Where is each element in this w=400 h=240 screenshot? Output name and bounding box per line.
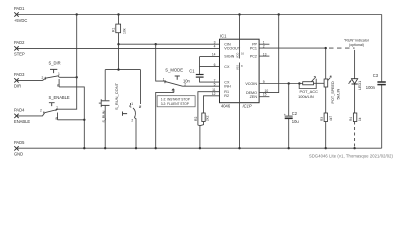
wire S_ENABLE common to GND riser <box>58 119 85 121</box>
node junction S_RUN_CONT-GND <box>135 147 137 149</box>
svg-text:S_MODE: S_MODE <box>165 68 183 73</box>
wire VSS power line pin8 <box>239 63 241 149</box>
wire IC pin9 to POT_ACC <box>259 83 303 85</box>
node junction net-S_MODE riser <box>155 43 157 45</box>
node junction R1-net <box>117 43 119 45</box>
svg-text:15: 15 <box>263 93 267 97</box>
wire ENABLE pad4 to S_ENABLE <box>17 113 45 116</box>
svg-text:DIR: DIR <box>14 84 21 89</box>
node junction rail-S_DIR <box>76 13 78 15</box>
wire POT_ACC to POT_SPEED wiper <box>314 82 325 84</box>
svg-text:SIGIN: SIGIN <box>224 55 234 59</box>
capacitor C1 <box>183 57 220 84</box>
svg-text:4k7: 4k7 <box>329 116 333 121</box>
resistor R1 <box>112 15 127 45</box>
wire R1 bottom to signal net <box>118 44 120 69</box>
svg-text:1k: 1k <box>358 117 362 121</box>
svg-text:10n: 10n <box>183 79 191 84</box>
svg-text:LED1: LED1 <box>358 81 362 90</box>
svg-text:IC1: IC1 <box>220 34 227 39</box>
svg-text:2: 2 <box>40 108 42 112</box>
svg-text:1: 1 <box>58 72 60 76</box>
potentiometer POT_ACC <box>298 76 318 99</box>
wire GND rail <box>17 147 382 149</box>
svg-text:100k/LIN: 100k/LIN <box>298 94 314 99</box>
svg-text:5k/LIN: 5k/LIN <box>336 89 340 100</box>
wire LED riser <box>354 50 356 79</box>
wire VDD power line pin16 <box>239 15 241 59</box>
svg-text:R4: R4 <box>349 117 353 121</box>
wire IC pin10 to +5V riser <box>259 15 279 93</box>
svg-text:IC1P: IC1P <box>243 104 252 109</box>
wire IC pin6 to C1 top <box>200 66 220 68</box>
svg-text:C1: C1 <box>189 68 195 73</box>
wire IC pin1 stub <box>259 43 269 45</box>
wire S_DIR throw to +5V riser <box>59 76 77 78</box>
svg-text:S_ENABLE: S_ENABLE <box>49 95 70 100</box>
LED LED1 <box>349 79 363 90</box>
svg-text:ø: ø <box>139 104 142 109</box>
node junction VSS-GND <box>238 147 240 149</box>
svg-text:VCOIN: VCOIN <box>245 82 257 86</box>
resistor R2 <box>194 96 219 126</box>
svg-text:C3: C3 <box>373 73 379 78</box>
pad PAD1 <box>14 12 18 16</box>
node junction S_DIR-+5V <box>76 76 78 78</box>
svg-text:10u: 10u <box>292 119 299 124</box>
svg-text:PAD2: PAD2 <box>14 40 25 45</box>
svg-text:GND: GND <box>14 152 23 157</box>
capacitor C2 polarized <box>284 84 299 149</box>
svg-text:PAD5: PAD5 <box>14 140 25 145</box>
wire DIR pad3 to S_DIR <box>17 78 47 80</box>
svg-text:R1: R1 <box>112 27 116 32</box>
wire dashed R4 to GND <box>354 122 356 149</box>
label IC right pin numbers <box>263 41 269 97</box>
svg-text:C2: C2 <box>292 111 298 116</box>
label IC left pin numbers <box>212 41 216 97</box>
svg-text:2k2: 2k2 <box>206 115 210 121</box>
node junction rail-VDD <box>238 13 240 15</box>
switch S_RUN_CONT <box>114 70 142 123</box>
wire STEP pad2 to IC pin4 <box>17 47 220 49</box>
pad PAD2 <box>14 46 18 50</box>
svg-text:R3: R3 <box>320 117 324 121</box>
svg-text:3-2: FLUENT STOP: 3-2: FLUENT STOP <box>161 102 189 106</box>
wire S_RUN_CONT throw to GND <box>135 118 137 148</box>
svg-text:R2: R2 <box>194 117 198 121</box>
svg-text:14: 14 <box>212 53 216 57</box>
svg-text:ZEN: ZEN <box>250 95 258 99</box>
svg-text:PAD1: PAD1 <box>14 6 25 11</box>
svg-text:1: 1 <box>56 106 58 110</box>
wire S_MODE common to IC pin5 <box>183 85 220 87</box>
svg-text:10k: 10k <box>122 28 126 34</box>
label IC right pin names <box>245 43 257 100</box>
node junction pin2-POT_SPEED <box>325 47 327 49</box>
wire +5V rail <box>17 14 382 16</box>
switch S_MODE <box>156 44 187 93</box>
svg-text:4: 4 <box>214 45 216 49</box>
wire S_MODE throw3 to GND riser <box>156 92 174 148</box>
svg-text:PAD4: PAD4 <box>14 108 25 113</box>
switch S_ENABLE <box>40 95 70 121</box>
pad PAD5 <box>14 146 18 150</box>
svg-text:1-2: INSTANT STOP: 1-2: INSTANT STOP <box>161 98 190 102</box>
svg-text:STEP: STEP <box>14 52 25 57</box>
pad PAD3 <box>14 78 18 82</box>
svg-text:INH: INH <box>224 85 231 89</box>
node junction pin9-potacc <box>298 82 300 84</box>
wire IC pin13 stub <box>259 55 269 57</box>
node junction R3-GND <box>325 147 327 149</box>
svg-text:(optional): (optional) <box>349 43 364 47</box>
wire IC pin11 to GND <box>198 92 220 148</box>
svg-text:PAD3: PAD3 <box>14 72 25 77</box>
wire right edge riser <box>381 15 383 82</box>
node junction pushbutton-GND <box>104 147 106 149</box>
resistor R3 <box>320 113 333 148</box>
svg-text:1: 1 <box>131 102 133 106</box>
svg-text:PC2: PC2 <box>250 55 257 59</box>
svg-text:R2: R2 <box>224 94 229 98</box>
node junction S_DIR/S_ENABLE common <box>83 119 85 121</box>
note box stop modes <box>157 96 195 107</box>
svg-text:+5VDC: +5VDC <box>14 18 27 23</box>
svg-text:2: 2 <box>131 119 133 123</box>
wire comparator-in net <box>119 43 220 45</box>
svg-text:CX: CX <box>224 65 230 69</box>
wire signal net y60 <box>105 69 140 71</box>
svg-text:6: 6 <box>214 63 216 67</box>
wire LED to R4 <box>354 84 356 113</box>
pushbutton S_RUN <box>99 99 110 122</box>
svg-text:S_DIR: S_DIR <box>49 60 61 65</box>
node junction R4-GND <box>353 147 355 149</box>
wire pushbutton to GND <box>104 105 106 148</box>
svg-text:PC1: PC1 <box>250 47 257 51</box>
svg-text:2: 2 <box>42 76 44 80</box>
svg-text:S_RUN_CONT: S_RUN_CONT <box>114 82 119 110</box>
wire IC pin15 stub <box>259 96 269 98</box>
svg-text:VSS: VSS <box>236 65 239 70</box>
node junction common-GND <box>83 147 85 149</box>
label IC left pin names <box>224 43 241 99</box>
svg-text:100n: 100n <box>366 85 376 90</box>
node junction pin9-C2 <box>288 82 290 84</box>
potentiometer POT_SPEED <box>324 48 340 113</box>
node junction pin11-GND <box>199 147 201 149</box>
svg-text:VCOOUT: VCOOUT <box>224 47 241 51</box>
svg-text:POT_SPEED: POT_SPEED <box>331 81 335 103</box>
IC U1 4046 box <box>220 34 260 109</box>
node junction rail-R1 <box>117 13 119 15</box>
pad PAD4 <box>14 114 18 118</box>
svg-text:4046: 4046 <box>221 104 231 109</box>
wire S_DIR common down <box>59 87 84 148</box>
svg-text:VDD: VDD <box>236 53 239 58</box>
svg-text:5: 5 <box>214 83 216 87</box>
node junction rail-pin10 <box>278 13 280 15</box>
wire IC pin14 corner <box>200 56 220 58</box>
wire IC pin2 to POT_SPEED <box>259 47 326 49</box>
switch S_DIR <box>42 60 61 87</box>
svg-text:SDG4046 Lite (v1, Thomasque 20: SDG4046 Lite (v1, Thomasque 2021/02/02) <box>309 153 394 158</box>
svg-text:12: 12 <box>212 92 216 96</box>
node junction S_MODE-GND <box>155 147 157 149</box>
wire dashed optional LED branch <box>329 47 355 49</box>
wire pushbutton branch down <box>104 70 106 101</box>
node junction signal net <box>117 68 119 70</box>
svg-text:1: 1 <box>163 78 165 82</box>
svg-text:ENABLE: ENABLE <box>14 119 30 124</box>
wire +5V riser to S_ENABLE throw <box>56 15 77 110</box>
node junction C2-GND <box>288 147 290 149</box>
svg-text:"RUN" indicator: "RUN" indicator <box>344 38 370 42</box>
resistor R4 <box>349 113 362 122</box>
capacitor C3 <box>366 73 386 90</box>
